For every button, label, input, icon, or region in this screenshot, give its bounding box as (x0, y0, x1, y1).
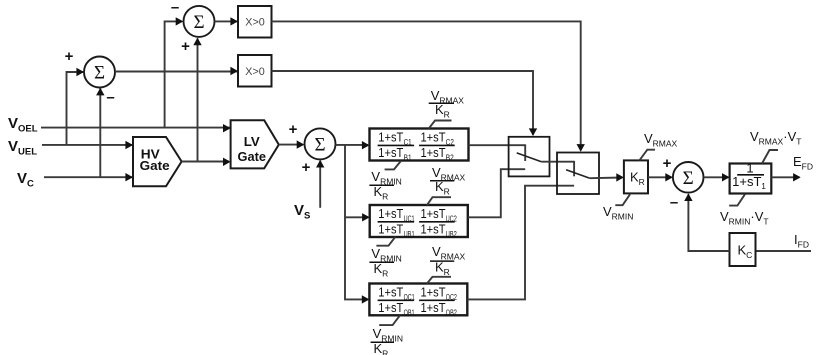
summer S1 (HVout - V_OEL) (184, 6, 215, 37)
svg-text:1+sT: 1+sT (421, 285, 446, 300)
LV Gate (231, 120, 279, 168)
wire V_C to HV gate (44, 173, 133, 181)
wire X>0 upper output to switch SW2 control (272, 21, 585, 151)
wire V_UEL branch up to summer S2 (67, 68, 85, 145)
wire HV gate output branch up to summer S1 plus input (193, 38, 201, 161)
limit VRMIN/KR below TF2 (369, 237, 401, 279)
wire V_OEL branch up to summer S1 minus input (165, 17, 184, 127)
limit VRMIN below KR (603, 194, 633, 221)
svg-text:UB1: UB1 (404, 230, 415, 239)
svg-text:+: + (663, 155, 672, 172)
node V_C input label (17, 170, 34, 190)
wire LV gate output to summer S3 (279, 140, 305, 148)
comparator X>0 upper (OEL active detect) (238, 6, 272, 38)
gain block KC (730, 233, 756, 266)
wire branch vertical to TF2 and TF3 (345, 145, 370, 304)
wire KC output to summer S4 minus input (684, 193, 729, 251)
node V_S label (294, 202, 310, 222)
limit VRMAX*VT above block TA (750, 129, 801, 164)
block TF1 (1+sTC1)/(1+sTB1)*(1+sTC2)/(1+sTB2) (370, 129, 469, 163)
svg-text:1+sT: 1+sT (421, 222, 446, 237)
svg-text:–: – (171, 0, 179, 16)
svg-text:+: + (302, 159, 311, 176)
limit VRMIN*VT below block TA (720, 194, 769, 226)
limit VRMIN/KR below TF3 (371, 315, 403, 355)
minus sign S4 bottom input (670, 194, 678, 211)
wire S2 output to comparator X>0 lower (115, 67, 238, 75)
limit VRMAX/KR above TF2 (427, 165, 466, 205)
svg-text:OB1: OB1 (404, 309, 415, 318)
svg-text:+: + (289, 121, 298, 138)
svg-text:Σ: Σ (314, 134, 325, 155)
wire S4 output to block TA (704, 173, 730, 181)
wire X>0 lower output to switch SW1 control (272, 71, 538, 136)
plus sign S4 left input (663, 155, 672, 172)
svg-text:+: + (65, 48, 74, 65)
comparator X>0 lower (UEL active detect) (238, 55, 272, 87)
wire TF3 output to switch SW2 lower contact (467, 186, 574, 300)
svg-text:OB2: OB2 (446, 309, 457, 318)
svg-text:–: – (106, 89, 114, 106)
svg-text:1+sT: 1+sT (421, 300, 446, 315)
svg-text:UB2: UB2 (446, 230, 457, 239)
node V_UEL input label (8, 138, 37, 158)
svg-text:LV: LV (244, 134, 260, 149)
summer S4 (field voltage summer) (673, 162, 704, 193)
svg-text:1+sT: 1+sT (378, 300, 403, 315)
minus sign S1 left input (171, 0, 179, 16)
wire HV gate output to LV gate (182, 158, 231, 166)
limit VRMAX above KR (639, 131, 677, 160)
wire V_UEL to HV gate (42, 141, 133, 149)
svg-text:1+sT: 1+sT (378, 285, 403, 300)
plus sign S1 bottom input (181, 38, 190, 55)
switch SW2 (OEL path selector) (557, 153, 599, 195)
node EFD output label (793, 154, 813, 172)
plus sign S3 bottom input (302, 159, 311, 176)
block 1/(1+sT1) (730, 161, 772, 194)
svg-text:1+sT: 1+sT (378, 130, 403, 145)
svg-text:1+sT: 1+sT (421, 145, 446, 160)
limit VRMIN/KR below TF1 (369, 161, 401, 202)
wire TF2 output to switch SW1 lower contact (468, 169, 525, 217)
svg-text:X>0: X>0 (245, 17, 264, 29)
summer S2 (V_UEL - V_C) (84, 57, 115, 88)
node V_OEL input label (8, 115, 38, 135)
wire IFD into gain KC (756, 250, 812, 252)
svg-text:Σ: Σ (94, 63, 105, 84)
svg-text:B2: B2 (446, 154, 454, 163)
HV Gate (133, 137, 182, 186)
svg-text:1+sT: 1+sT (421, 130, 446, 145)
wire V_OEL to LV gate (41, 124, 231, 132)
svg-text:Σ: Σ (683, 168, 694, 189)
svg-text:1+sT: 1+sT (421, 206, 446, 221)
svg-text:B1: B1 (404, 154, 412, 163)
wire SW1 output to SW2 upper contact (541, 161, 574, 176)
wire TF1 output to switch SW1 (469, 144, 526, 161)
svg-text:Σ: Σ (193, 12, 204, 33)
svg-text:1+sT: 1+sT (378, 145, 403, 160)
block TF3 (1+sTOC1)/(1+sTOB1)*(1+sTOC2)/(1+sTOB2) (369, 284, 467, 318)
svg-text:1+sT1: 1+sT1 (732, 174, 766, 191)
minus sign S2 bottom input (106, 89, 114, 106)
wire S1 output to comparator X>0 upper (215, 17, 238, 25)
gain block KR (624, 160, 648, 193)
svg-text:Gate: Gate (238, 149, 267, 164)
block TF2 (1+sTUC1)/(1+sTUB1)*(1+sTUC2)/(1+sTUB2) (370, 205, 468, 239)
plus sign S3 left input (289, 121, 298, 138)
wire V_S into summer S3 (316, 160, 324, 208)
svg-text:+: + (181, 38, 190, 55)
switch SW1 (UEL path selector) (509, 137, 550, 177)
svg-text:1+sT: 1+sT (378, 206, 403, 221)
svg-text:–: – (670, 194, 678, 211)
summer S3 (regulator input) (305, 128, 336, 159)
svg-text:Gate: Gate (140, 158, 170, 173)
limit VRMAX/KR above TF1 (429, 88, 465, 129)
limit VRMAX/KR above TF3 (427, 244, 466, 284)
wire KR output to summer S4 (648, 173, 673, 181)
wire S3 output to block TF1 and branch node (336, 141, 370, 149)
wire SW2 output to gain KR (590, 173, 624, 181)
svg-text:1+sT: 1+sT (378, 222, 403, 237)
wire V_C branch up to summer S2 minus input (96, 88, 104, 177)
svg-text:X>0: X>0 (245, 66, 264, 78)
node IFD input label (794, 232, 809, 250)
wire EFD output (771, 173, 800, 181)
plus sign S2 left input (65, 48, 74, 65)
